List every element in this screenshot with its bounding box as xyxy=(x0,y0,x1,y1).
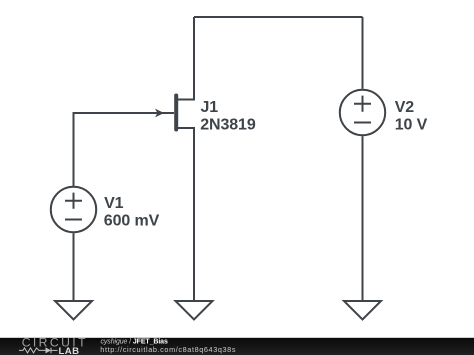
svg-text:http://circuitlab.com/c8at8q64: http://circuitlab.com/c8at8q643q38s xyxy=(100,345,236,354)
V1 minus sign xyxy=(65,219,82,221)
V2 minus sign xyxy=(354,122,371,124)
logo resistor zigzag and diode xyxy=(19,348,58,354)
V1 plus sign xyxy=(65,193,82,209)
svg-text:600 mV: 600 mV xyxy=(104,213,160,230)
svg-text:V2: V2 xyxy=(395,99,415,116)
transistor J1 channel bar xyxy=(174,96,178,130)
svg-text:LAB: LAB xyxy=(59,346,80,355)
ground (V2 branch) xyxy=(344,301,381,320)
wire V1 bottom to ground xyxy=(73,233,75,301)
wire drain vertical xyxy=(178,17,194,100)
svg-text:J1: J1 xyxy=(201,99,219,116)
wire gate from V1 to J1 xyxy=(74,113,175,186)
wire V2 top xyxy=(362,17,364,89)
transistor J1 gate arrow xyxy=(155,109,164,118)
ground (V1 branch) xyxy=(55,301,92,320)
wire source lead down to ground xyxy=(178,128,194,301)
svg-text:10 V: 10 V xyxy=(395,117,428,134)
wire top rail from J1 drain to V2 xyxy=(194,16,363,18)
svg-text:V1: V1 xyxy=(104,195,124,212)
voltage source V1 circle xyxy=(51,187,96,232)
ground (J1 source branch) xyxy=(176,301,213,320)
logo diode triangle xyxy=(46,347,52,353)
V2 plus sign xyxy=(354,96,371,112)
voltage source V2 circle xyxy=(340,90,385,135)
wire V2 bottom to ground xyxy=(362,136,364,301)
svg-text:2N3819: 2N3819 xyxy=(200,117,256,134)
